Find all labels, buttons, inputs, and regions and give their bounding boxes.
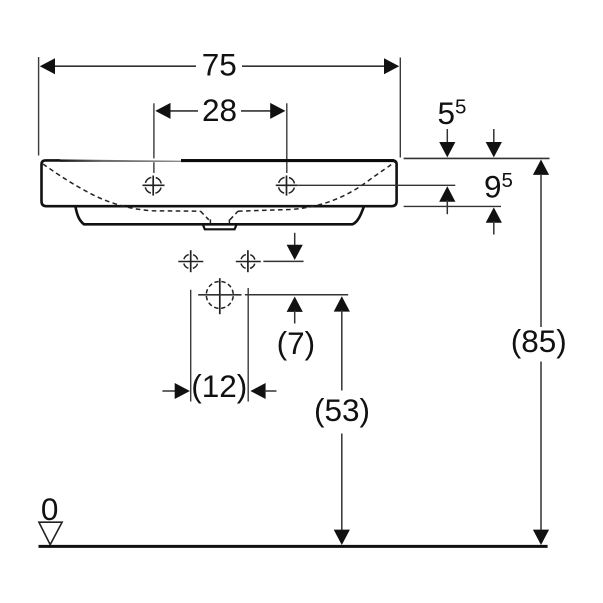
dimension 9.5: lower arrow (up) (486, 207, 502, 234)
svg-text:(85): (85) (511, 323, 567, 359)
dimension (53): vertical line with top arrow (up) (334, 296, 350, 390)
dimension (7): upper arrow already above; lower arrow (up) (287, 297, 303, 324)
dimension 75: right extension line (399, 58, 401, 158)
dimension 75: left extension line (38, 57, 40, 156)
fixing hole left: dashed circle (184, 254, 198, 268)
dimension (12): left arrow (points right) (162, 383, 190, 399)
drain level line (198, 294, 241, 296)
washbasin body outline (42, 160, 397, 206)
svg-text:75: 75 (202, 46, 237, 82)
basin top level reference line (right) (404, 157, 550, 159)
svg-text:(53): (53) (314, 392, 370, 428)
fixing-hole level line (263, 260, 303, 262)
drain hole: dashed circle (206, 281, 233, 308)
tap hole right: cross arms (276, 176, 298, 196)
dimension 5.5: lower arrow (up) (439, 186, 455, 214)
dimension (85): lower line with bottom arrow (down) (533, 362, 549, 546)
washbasin apron (front skirt) (76, 207, 364, 225)
washbasin rim top edge right (thicker, double line) (181, 159, 394, 162)
tap hole level reference line to the right (298, 184, 455, 186)
floor line (39, 545, 548, 548)
dimension 75: right arrowhead (384, 58, 399, 74)
drain hole dashed right side (228, 219, 230, 223)
basin interior dashed: step up from drain (230, 211, 238, 220)
tap hole left: dashed circle (145, 177, 161, 193)
dimension 28: left arrowhead (155, 103, 170, 119)
fixing hole left extension line down (190, 290, 192, 402)
svg-text:28: 28 (202, 92, 237, 128)
drain boss below apron (203, 225, 236, 230)
basin interior dashed: step down to drain (201, 211, 209, 220)
dimension (53): lower line with bottom arrow (down) (334, 434, 350, 546)
tap hole left: cross arms (143, 176, 165, 196)
dimension 28: dimension line (169, 110, 271, 112)
dimension 5.5: upper arrow (down) (439, 129, 455, 157)
dimension 9.5: upper arrow (down) (486, 129, 502, 157)
basin interior bottom, dashed (right rise) (238, 162, 395, 212)
basin bottom level reference line (right) (404, 205, 501, 207)
arrow pointing down to fixing-hole level line (287, 233, 303, 260)
dimension 75: left arrowhead (40, 58, 55, 74)
fixing hole right: dashed circle (241, 254, 255, 268)
dimension (85): vertical line with top arrow (up) (533, 160, 549, 328)
basin interior bottom, dashed (left swoosh) (43, 164, 201, 211)
fixing hole left: cross arms (178, 250, 203, 272)
dimension 75: dimension line (54, 65, 386, 67)
svg-text:0: 0 (41, 491, 59, 527)
washbasin rim top edge fade (middle-left thinner) (60, 158, 181, 162)
floor datum triangle symbol (39, 522, 62, 544)
drain hole: vertical cross arm (219, 278, 221, 314)
fixing hole right extension line down (247, 288, 249, 402)
dimension 28: right arrowhead (270, 103, 285, 119)
drain hole dashed left side (209, 219, 211, 223)
dimension 28: right extension line (286, 103, 288, 173)
fixing hole right: cross arms (236, 250, 261, 272)
tap hole right: dashed circle (278, 177, 294, 193)
svg-text:(12): (12) (191, 368, 247, 404)
svg-text:(7): (7) (277, 325, 316, 361)
dimension 28: left extension line (153, 103, 155, 173)
dimension (12): right arrow (points left) (250, 383, 276, 399)
